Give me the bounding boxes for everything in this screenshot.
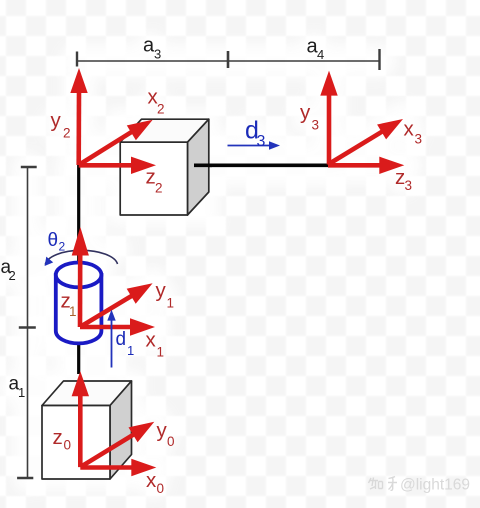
d1 arrow (blue) <box>107 310 115 368</box>
black link stub over cube right face <box>194 164 212 168</box>
svg-text:x: x <box>146 469 157 492</box>
svg-text:1: 1 <box>69 304 77 319</box>
label a4 <box>307 36 325 63</box>
svg-text:0: 0 <box>167 434 175 449</box>
svg-text:1: 1 <box>157 345 165 360</box>
link line: joint2 origin to frame3 origin (horizontal) <box>79 164 328 168</box>
cube link 0 (base box) <box>42 381 132 479</box>
label y3 <box>300 101 319 133</box>
theta2 rotation arc <box>45 250 117 264</box>
svg-text:2: 2 <box>155 181 163 196</box>
label x0 <box>146 469 164 496</box>
svg-text:1: 1 <box>127 343 134 358</box>
svg-text:y: y <box>157 419 168 442</box>
label a3 <box>143 35 161 62</box>
svg-text:θ: θ <box>48 230 59 251</box>
svg-text:y: y <box>300 101 311 124</box>
cube link 2 (upper box) <box>120 119 209 215</box>
cylinder joint 1 (blue) <box>56 263 102 344</box>
svg-text:2: 2 <box>157 102 165 117</box>
svg-text:y: y <box>51 109 62 132</box>
axis y1 <box>80 283 153 327</box>
label d3 <box>245 117 266 151</box>
svg-text:3: 3 <box>415 132 423 147</box>
joint1 axis arrow (through cylinder) <box>72 227 89 327</box>
svg-text:1: 1 <box>167 296 175 311</box>
svg-text:@light169: @light169 <box>400 477 470 494</box>
label z0 <box>53 426 72 453</box>
svg-text:3: 3 <box>312 118 320 133</box>
label z3 <box>395 166 412 193</box>
axis z3 <box>328 157 404 174</box>
label theta2 <box>48 230 66 254</box>
axis y2 <box>70 68 87 165</box>
svg-text:x: x <box>146 329 157 352</box>
label z1 <box>61 290 77 320</box>
d3 arrow (blue) <box>228 141 281 150</box>
axis x1 <box>80 318 155 335</box>
dimension line a3/a4 (top) <box>77 49 380 70</box>
link line: vertical through joint 1 <box>77 165 80 374</box>
axis y0 <box>80 422 154 467</box>
axis z0 <box>72 371 89 467</box>
theta2 arrowhead <box>45 257 54 266</box>
svg-text:3: 3 <box>154 47 161 62</box>
svg-text:y: y <box>156 279 167 302</box>
label y1 <box>156 279 175 311</box>
dimension line a2/a1 (left) <box>17 167 37 478</box>
svg-text:3: 3 <box>405 178 413 193</box>
label y0 <box>157 419 175 449</box>
axis x2 <box>79 120 153 165</box>
svg-text:z: z <box>53 426 63 449</box>
svg-text:2: 2 <box>9 268 16 283</box>
label x2 <box>148 86 165 117</box>
label z2 <box>146 166 163 196</box>
svg-text:2: 2 <box>59 240 66 254</box>
svg-text:4: 4 <box>317 47 324 62</box>
axis x3 <box>328 119 403 165</box>
svg-text:1: 1 <box>18 385 25 400</box>
axis z2 <box>79 157 156 174</box>
axis x0 <box>80 459 156 476</box>
axis y3 <box>320 71 337 165</box>
label y2 <box>51 109 71 141</box>
watermark zhihu @light169 <box>369 477 398 491</box>
svg-text:x: x <box>404 118 415 141</box>
svg-text:0: 0 <box>64 438 72 453</box>
svg-text:d: d <box>116 329 127 350</box>
svg-text:3: 3 <box>257 133 266 150</box>
label x3 <box>404 118 423 147</box>
label x1 <box>146 329 165 360</box>
label d1 <box>116 329 135 358</box>
svg-text:0: 0 <box>157 481 165 496</box>
label a1 <box>9 374 26 401</box>
svg-text:2: 2 <box>63 126 71 141</box>
label a2 <box>1 257 16 283</box>
